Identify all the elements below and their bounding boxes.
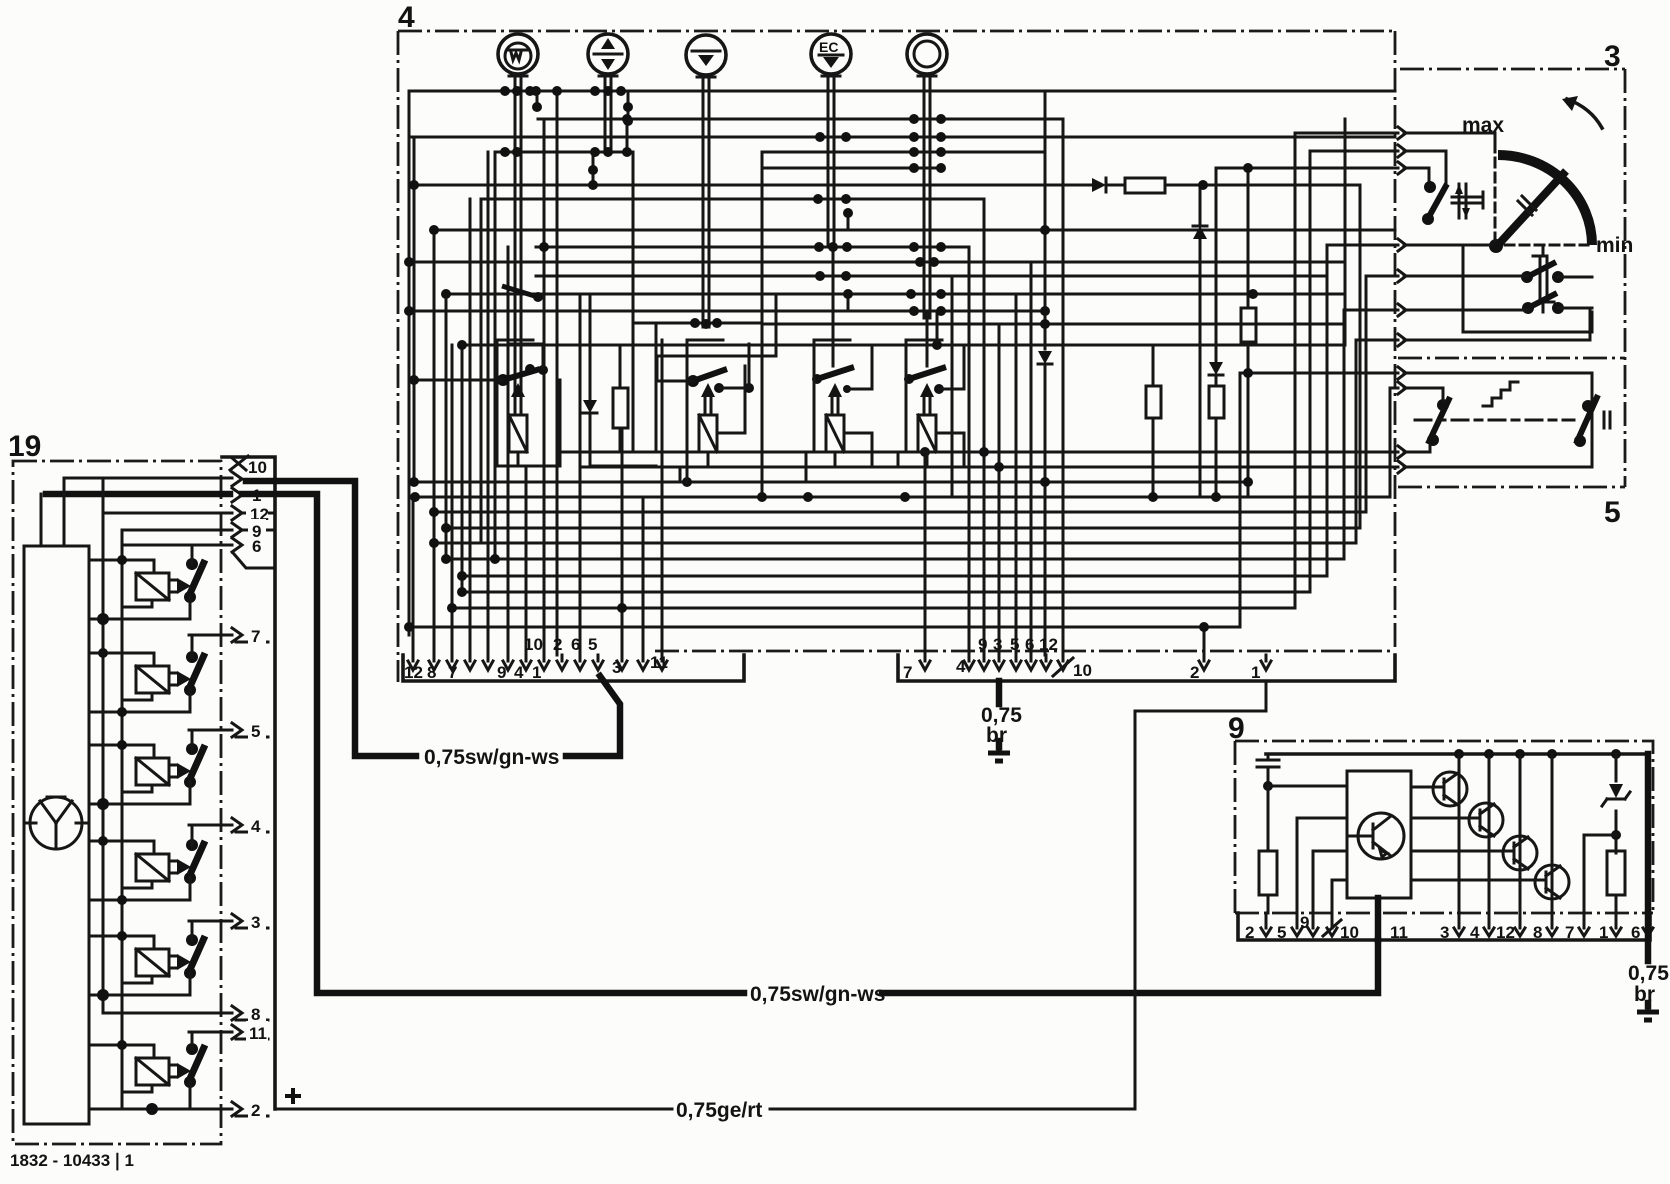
svg-text:6: 6 [571,635,580,654]
plus terminal [285,1088,301,1104]
switch arm C [812,374,822,384]
left vertical x409 [408,91,411,635]
unit 3 border bottom [1398,486,1625,489]
direction arrow [1567,99,1602,128]
relay K4 in unit 19 [89,825,205,905]
wires into middle switch [1404,276,1592,310]
svg-text:0,75: 0,75 [1628,962,1669,985]
switch arm D [904,374,914,384]
svg-text:5: 5 [1277,923,1286,942]
wire y276 right [536,275,1327,278]
wire y467 [580,466,1398,469]
ground symbol unit 9 [1637,1006,1659,1020]
coil D [918,415,936,452]
armature arrow C [828,383,842,397]
armature arrow D [920,383,934,397]
svg-text:4: 4 [251,817,261,836]
indicator lamp 4 (EC symbol) [811,34,851,74]
resistor R2 [1607,851,1625,895]
nest vertical x1240 [1239,373,1242,627]
relay K2 in unit 19 [89,635,205,717]
pin 5 chevron [189,723,268,737]
stub under lamp2 [537,91,628,121]
resistor R3 [1146,386,1161,418]
connector strip left bracket of unit 4 [403,655,744,681]
fan wire y563 [446,558,1344,561]
vertical x1153 [1152,345,1155,497]
unit 3 border top [1400,68,1625,71]
svg-text:1: 1 [532,663,541,682]
pump motor M [24,797,89,849]
slash marker on right strip pin 10 [1053,658,1073,676]
wire cap to resistor [1267,786,1270,851]
switch frame middle [1463,246,1592,332]
wire from chevron to switch pivot [1404,168,1429,186]
svg-text:4: 4 [1470,923,1480,942]
svg-text:2: 2 [1245,923,1254,942]
wire from unit 19 pin 2 to unit 4 pin 1 [275,683,1266,1109]
gauge dashed boundary [1494,158,1497,240]
relay group C in unit 4 [806,340,872,482]
ground symbol under unit 4 [988,745,1010,761]
svg-text:br: br [1634,983,1655,1006]
svg-text:4: 4 [514,663,524,682]
diode D5 [1209,362,1223,375]
svg-text:12: 12 [404,663,423,682]
relay K5 in unit 19 [89,921,205,1001]
coil B [699,415,717,452]
coil A [509,415,527,452]
nest vertical x1308 [1326,245,1329,576]
vertical x1200 with diode [1199,185,1202,497]
unit 3 border right [1624,69,1627,487]
drop x470 [469,199,472,655]
U1 wire to pin 10 [1332,880,1347,913]
arc feed wires into unit 3 [1216,133,1398,388]
vertical x1043 with diode [1044,91,1047,655]
drop to right pin 2 x1204 [1203,627,1206,655]
fan wire y531 [446,527,1360,530]
resistor R6 on y185 [1125,178,1165,193]
svg-text:4: 4 [398,1,415,34]
heavy wire from unit 19 pin 1 to unit 9 pin 11 [242,494,1378,993]
vertical x762 [761,152,764,497]
wire from chevron to arc top [1404,133,1495,152]
vertical x1248 [1247,168,1250,497]
drop to pin 1 x544 [543,119,546,655]
lamp 1 stem [509,74,527,392]
svg-text:2: 2 [1190,663,1199,682]
wire y152 [495,151,633,154]
unit 4 border top [398,30,1395,33]
contact pair with arrows [1459,184,1466,218]
junction dots on bus [1454,749,1464,759]
svg-text:6: 6 [252,537,261,556]
lamp 5 stem [918,74,936,318]
left nest vertical x481 [480,199,483,543]
nest vertical x1360 [1359,185,1362,528]
transistor T4 [1535,865,1569,899]
vertical x937 [936,311,939,345]
armature arrow A [511,383,525,397]
drop to right pin 9 x984 [983,199,986,655]
unit 4 border left [397,31,400,682]
svg-text:0,75sw/gn-ws: 0,75sw/gn-ws [424,746,559,769]
unit 4 border right [1394,31,1397,650]
gauge needle [1496,171,1566,247]
switch arm lower [1522,302,1534,314]
switch arm upper [1521,271,1533,283]
wire y452 [560,451,1398,454]
unit 9 pin forks [1261,913,1653,936]
svg-text:4: 4 [956,657,966,676]
wire y323 lamp3 [633,152,1343,324]
indicator lamp 2 (up/down arrows) [588,34,628,74]
svg-text:2: 2 [251,1101,260,1120]
unit 19 border [13,461,221,1144]
svg-text:7: 7 [903,663,912,682]
connector chevrons on unit 3 left edge [1398,127,1406,473]
transistor T3 [1503,836,1537,870]
drop to right pin 3 x999 [998,324,1001,655]
unit 9 top bus [1266,752,1648,756]
pin 2 chevron [152,1102,268,1116]
drop to pin 4 x526 [525,466,528,655]
IC box U1 [1347,771,1411,898]
pin 12 chevron [103,506,275,520]
frame C [806,340,872,482]
drop x643 [642,497,645,655]
contact dots B [714,383,724,393]
drop to right pin 4 x969 [968,247,971,655]
svg-text:1: 1 [1251,663,1260,682]
vertical x656 [655,323,658,452]
frame B [656,340,745,482]
mechanical link dashes [1415,419,1574,422]
svg-text:7: 7 [251,627,260,646]
svg-text:7: 7 [448,663,457,682]
temperature switch arm [1424,181,1436,193]
U1 wire to cap node [1268,785,1347,788]
drop to pin 11 x662 [661,340,664,655]
svg-text:9: 9 [1300,913,1309,932]
bus wire y262 [409,261,1345,264]
drop to right pin 7 x925 [924,452,927,655]
wire y199 [481,198,984,201]
svg-text:11: 11 [249,1024,267,1043]
ground wire from pin 3 of right strip [996,681,1003,747]
right margin vertical x1345 [1295,119,1345,608]
wires into lower box [1404,388,1443,452]
drop x562 [556,91,559,655]
vertical x952 [951,276,954,497]
coil C [826,415,844,452]
svg-text:min: min [1596,234,1633,257]
bus wire y482 [414,481,1248,484]
relay K3 in unit 19 [89,730,205,810]
indicator lamp 5 (plain) [907,34,947,74]
left nest vertical x462 [461,345,464,592]
bus wire y345 [462,344,1345,347]
drop to pin 7 x452 [451,345,454,655]
fan wire y546 [434,542,1356,545]
switch arm A [497,374,509,386]
stub x627 [626,119,629,152]
svg-text:8: 8 [1533,923,1542,942]
drop x488 [487,152,490,655]
pump housing rectangle [24,546,89,1124]
relay group D in unit 4 [898,340,964,467]
svg-text:6: 6 [1631,923,1640,942]
svg-text:3: 3 [251,913,260,932]
upper switch on lamp1 stem [533,292,543,302]
wire y247 [536,246,969,249]
lamp5 lower stem [926,311,929,366]
capacitor C1 [1257,754,1279,786]
vertical x1216 [1215,168,1218,497]
nest vertical x1390 [1389,388,1392,497]
drop to right pin 5 x1016 [1015,294,1018,655]
drop to pin 9 x508 [507,247,510,655]
relay K1 in unit 19 [89,545,205,625]
svg-text:EC: EC [819,39,838,55]
lamp2 lower stem [592,152,595,185]
step symbol [1483,382,1518,406]
svg-text:5: 5 [1604,496,1621,529]
svg-text:9: 9 [497,663,506,682]
svg-text:11: 11 [1390,923,1408,942]
fan wire y515 [434,511,1366,514]
indicator lamp 3 (level symbol) [686,35,726,75]
ground wire from pin 6 [1645,754,1652,1006]
diode D3 [1038,351,1052,364]
unit 4 border bottom [655,650,1395,653]
svg-text:2: 2 [553,635,562,654]
heavy wire from U1 to pin 11 [1375,898,1382,940]
bus wire y230 [434,229,1395,232]
svg-text:5: 5 [251,722,260,741]
svg-text:10: 10 [1073,661,1092,680]
relay K6 in unit 19 [89,1032,205,1115]
U1 wire to pin 5 [1297,818,1347,913]
left vertical x414 [413,137,416,482]
left switch in lower box [1437,399,1449,411]
svg-text:5: 5 [1010,635,1019,654]
pin 1 chevron [46,491,230,498]
wire to pin 7 [1584,835,1616,913]
pin 4 chevron [189,818,268,832]
resistor R4 [1209,386,1224,418]
svg-text:0,75sw/gn-ws: 0,75sw/gn-ws [750,983,885,1006]
fan wire y635 [409,626,1240,629]
zener diode Z1 [1615,754,1618,853]
connector strip right bracket of unit 4 [898,655,1395,681]
unit 9 border [1235,741,1653,913]
svg-text:8: 8 [427,663,436,682]
lower contact frame [1404,373,1592,467]
wire y185 feed [414,184,1360,187]
transistor T2 [1469,803,1503,837]
power transistor in U1 [1358,813,1404,859]
drop to pin 12 x413 [412,497,415,655]
junction dots block 4 [500,86,510,96]
wire along bottom chevron row [1404,310,1590,340]
nest vertical x1375 [1365,276,1368,512]
svg-text:1832 - 10433❘1: 1832 - 10433❘1 [10,1151,134,1171]
loop under diode [590,465,656,468]
collector wires to pins 3 4 12 8 [1459,754,1552,913]
central contact bars [1533,246,1554,312]
supply bus right of unit 19 [222,457,275,1109]
unit 9 connector bracket [1238,913,1650,940]
nest vertical x1327 [1343,310,1346,559]
drop x580 [579,294,582,655]
svg-text:0,75ge/rt: 0,75ge/rt [676,1099,762,1122]
wire from chevron to contact [1404,151,1446,188]
vertical x633 [633,152,848,452]
pin 7 chevron [189,628,268,642]
lamp 3 stem [697,75,715,327]
svg-text:1: 1 [1599,923,1608,942]
left nest vertical x495 [494,152,497,559]
drop to pin 8 x434 [433,230,436,655]
lamp 2 stem [599,74,617,152]
svg-text:19: 19 [8,430,41,463]
unit 3/5 divider [1398,357,1625,360]
bus wire y119 [538,118,1063,121]
fan wire y497 [415,496,1390,499]
drop to right pin 6 x1031 [1030,262,1033,655]
pin 9 chevron [122,523,275,537]
svg-text:12: 12 [1496,923,1515,942]
fan wire y619 [452,607,1295,610]
vertical x680 [679,467,682,482]
drop to right pin 10 x1063 [1062,119,1065,655]
pin 3 chevron [189,914,268,928]
U1 wire to blank pin [1313,851,1347,913]
bus wire y311 [409,310,1045,313]
frame D [898,340,964,467]
resistor R5 [1241,308,1256,342]
wire from needle chevron [1404,244,1490,247]
rail wires inside unit 19 [41,478,122,1109]
pins of right strip [920,655,1271,670]
relay group B in unit 4 [656,294,776,482]
pin 11 chevron [189,1025,268,1039]
svg-text:11: 11 [650,653,668,672]
pin 10 chevron [64,477,232,480]
pin 8 chevron [103,1006,268,1020]
fan wire y583 [462,575,1327,578]
bus wire y91 [409,90,1395,93]
svg-text:7: 7 [1565,923,1574,942]
svg-text:10: 10 [248,458,267,477]
bus wire y137 [412,136,1395,139]
svg-text:10: 10 [524,635,543,654]
transistor T1 [1433,772,1467,806]
frame A [497,340,560,466]
pin 6 chevron [122,538,272,568]
svg-text:3: 3 [612,658,621,677]
drop to pin 3 x622 [621,428,624,655]
svg-text:6: 6 [1025,635,1034,654]
svg-text:9: 9 [978,635,987,654]
indicator lamp 1 (washer symbol) [498,34,538,74]
svg-text:br: br [986,724,1007,747]
diode D2 on y185 [1092,178,1106,192]
pins 12,8,7 and others on left strip [408,655,667,670]
lamp4 lower stem [832,247,835,366]
resistor R7 [619,345,622,450]
left nest vertical x446 [445,294,448,559]
lamp 4 stem [822,74,840,247]
gauge arc [1498,155,1592,245]
fan wire y603 [462,591,1310,594]
svg-text:3: 3 [1440,923,1449,942]
svg-text:10: 10 [1340,923,1359,942]
diode D1 [589,294,592,466]
svg-text:3: 3 [993,635,1002,654]
relay group A in unit 4 [409,286,560,466]
bus wire y294 [446,293,1345,296]
wire resistor to pin 1 [1615,895,1618,913]
diode D4 [1193,225,1207,228]
heavy wire from unit 19 pin 10 to unit 4 pin 5 [246,481,620,756]
armature arrow B [701,383,715,397]
nest vertical x1342 [1355,340,1358,543]
svg-text:5: 5 [588,635,597,654]
right switch in lower box [1582,400,1594,412]
needle cross tick [1518,196,1536,215]
switch arm B [687,375,699,387]
resistor R1 [1259,851,1277,895]
svg-text:12: 12 [1039,635,1058,654]
nest vertical x1293 [1309,151,1312,592]
wire resistor to pin 2 [1267,895,1270,913]
T bar contact [1452,192,1483,208]
